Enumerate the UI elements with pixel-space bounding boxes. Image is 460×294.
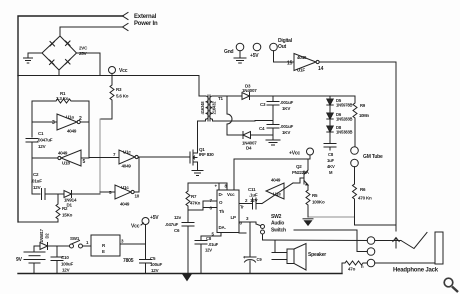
svg-text:1N5383B: 1N5383B <box>336 130 352 135</box>
svg-text:416348: 416348 <box>200 101 205 115</box>
wire ground rail <box>18 273 342 275</box>
svg-text:C2: C2 <box>33 172 39 177</box>
svg-text:Speaker: Speaker <box>308 252 326 258</box>
capacitor C3 <box>272 96 274 101</box>
wire R6 to U1F output line <box>354 217 356 225</box>
svg-text:.01uF: .01uF <box>208 242 219 247</box>
op-amp U1d (4049 buffer) <box>115 185 134 199</box>
wire battery to D2 <box>34 245 40 247</box>
svg-text:Th: Th <box>219 209 225 214</box>
jack tip arrow <box>393 238 399 249</box>
switch SW2 <box>256 224 265 240</box>
svg-text:LP: LP <box>231 215 237 220</box>
svg-text:U1e: U1e <box>273 192 281 197</box>
wire jack tip lead <box>375 240 401 242</box>
svg-text:100Ko: 100Ko <box>312 200 325 205</box>
diode D3 <box>242 93 250 100</box>
wire +5V pad down <box>145 225 147 260</box>
svg-text:U1c: U1c <box>123 150 131 155</box>
connector arrow top <box>123 13 129 20</box>
node +5V internal pad <box>142 218 149 225</box>
svg-text:C10: C10 <box>61 255 69 260</box>
svg-text:C1: C1 <box>38 131 44 136</box>
node Vcc pad <box>109 67 116 74</box>
wire U1e to Q2 base <box>293 178 304 183</box>
diode D1 <box>64 191 72 198</box>
svg-text:12V: 12V <box>250 198 258 203</box>
value label bridge output <box>79 46 88 57</box>
wire from bridge top to external power <box>60 26 123 28</box>
svg-text:T1: T1 <box>218 96 224 101</box>
svg-text:.1uF: .1uF <box>249 193 258 198</box>
svg-text:Tr: Tr <box>240 205 244 210</box>
wire D2 to SW1 <box>48 245 70 247</box>
svg-text:4049: 4049 <box>122 164 132 169</box>
wire top border / external power top lead <box>18 16 123 76</box>
svg-text:4049: 4049 <box>120 202 130 207</box>
wire left border down <box>17 76 19 223</box>
wire rail to transformer primary <box>199 76 203 97</box>
node headphone jack pad 2 <box>367 248 375 256</box>
op-amp U1a (4049 inverter) <box>57 114 80 130</box>
svg-text:14: 14 <box>318 66 324 72</box>
wire U1a input <box>32 121 57 123</box>
capacitor C2 <box>32 193 40 195</box>
svg-text:GM Tube: GM Tube <box>363 154 383 160</box>
capacitor C9 <box>249 222 251 257</box>
wire feedback vertical <box>99 119 101 194</box>
ground (bridge AC input) <box>24 53 33 63</box>
wire Q2 collector to +Vcc feed <box>307 159 309 170</box>
zener diode D8 <box>329 119 331 126</box>
node GM tube pad bottom <box>351 159 359 167</box>
wire U1b input <box>81 157 89 159</box>
wire secondary node down with hop <box>227 96 232 135</box>
wire oscillator right vertical <box>88 101 90 158</box>
svg-text:Vcc: Vcc <box>131 224 140 230</box>
battery B1 9V <box>24 246 45 274</box>
svg-text:Vcc: Vcc <box>119 68 128 74</box>
svg-text:C9: C9 <box>257 257 263 262</box>
svg-text:SW2: SW2 <box>271 214 282 220</box>
svg-text:+5V: +5V <box>150 215 159 221</box>
svg-text:.0047uF: .0047uF <box>37 138 53 143</box>
resistor R2 <box>56 194 60 222</box>
svg-text:C11: C11 <box>248 187 256 192</box>
wire bridge output right <box>77 52 101 54</box>
svg-text:2: 2 <box>79 116 82 122</box>
transistor Q1 (MOSFET) <box>190 150 198 165</box>
bridge rectifier BR1 <box>42 36 77 70</box>
svg-text:C4: C4 <box>259 126 265 131</box>
op-amp U1b (4049 inverter) <box>58 150 81 166</box>
svg-text:D4: D4 <box>246 146 252 151</box>
svg-text:4049: 4049 <box>297 55 307 60</box>
wire C2 to D1 <box>45 193 64 195</box>
svg-text:U1b: U1b <box>62 161 70 166</box>
svg-text:216432: 216432 <box>212 101 217 115</box>
wire U1d output join <box>134 157 139 192</box>
wire secondary top to D3 <box>214 95 242 97</box>
svg-text:R9: R9 <box>360 103 366 108</box>
ground (R5 bottom) <box>303 219 313 226</box>
svg-text:47o: 47o <box>348 267 356 272</box>
wire speaker top terminal <box>274 241 276 253</box>
switch SW1 <box>70 241 83 249</box>
svg-text:12V: 12V <box>38 144 46 149</box>
svg-text:4049: 4049 <box>58 151 68 156</box>
wire U1F output right <box>319 61 396 63</box>
svg-text:15Ko: 15Ko <box>62 213 73 218</box>
svg-text:.01uF: .01uF <box>31 179 42 184</box>
node headphone jack pad 3 <box>367 259 375 267</box>
resistor R5 <box>306 190 310 217</box>
resistor R1 <box>32 99 89 103</box>
svg-text:3: 3 <box>52 120 55 126</box>
svg-text:SW1: SW1 <box>70 236 80 241</box>
svg-text:Power In: Power In <box>134 21 158 27</box>
node GM tube pad top <box>351 147 359 155</box>
wire R7 to 555 pins 7,6 <box>188 201 217 210</box>
capacitor C5 <box>140 260 152 264</box>
svg-text:C3: C3 <box>260 102 266 107</box>
svg-text:12v: 12v <box>174 215 182 220</box>
resistor R6 <box>353 184 357 217</box>
svg-text:.047uF: .047uF <box>165 222 179 227</box>
svg-text:U1F: U1F <box>297 68 305 73</box>
capacitor C8 (bypass) <box>201 233 221 241</box>
svg-text:100uF: 100uF <box>150 262 162 267</box>
svg-text:D2: D2 <box>45 233 50 239</box>
resistor R3 <box>110 76 114 120</box>
svg-text:+Vcc: +Vcc <box>289 151 300 157</box>
node External Power In label <box>134 14 158 27</box>
node +Vcc pad <box>307 148 314 155</box>
op-amp U1F (4049 inverter) <box>294 54 319 71</box>
node headphone jack pad 1 <box>367 237 375 245</box>
svg-text:U1c: U1c <box>121 185 129 190</box>
wire D4 to C4 node <box>251 134 274 136</box>
svg-text:R6: R6 <box>360 187 366 192</box>
svg-text:4KV: 4KV <box>327 164 335 169</box>
svg-text:C8: C8 <box>206 236 212 241</box>
op-amp U1e (4049 inverter) <box>266 183 284 199</box>
wire right vertical (digital/headphone feed) <box>395 62 397 225</box>
svg-text:R2: R2 <box>62 206 68 211</box>
svg-text:C8: C8 <box>328 152 334 157</box>
svg-text:10: 10 <box>135 194 140 199</box>
svg-text:.001uF: .001uF <box>280 100 294 105</box>
zener diode D5 <box>329 96 331 99</box>
wire supply rail (box bottom edge) <box>18 75 199 77</box>
svg-text:12V: 12V <box>33 185 41 190</box>
resistor R7 <box>186 183 190 210</box>
wire R3 bottom to feedback line <box>100 118 112 120</box>
wire 555 supply stubs <box>218 183 220 190</box>
wire Q2 emitter to R5 <box>307 185 309 190</box>
node Gnd pad <box>236 43 244 51</box>
svg-text:Q2: Q2 <box>296 164 302 169</box>
zener diode D6 <box>329 105 331 113</box>
wire +Vcc feed line <box>234 155 310 190</box>
wire 555 bottom stub <box>239 232 246 234</box>
svg-text:C6: C6 <box>174 228 180 233</box>
svg-text:5: 5 <box>83 159 86 165</box>
magnifier icon <box>444 278 458 292</box>
wire osc to U1c input <box>89 157 119 159</box>
svg-text:12V: 12V <box>205 248 212 253</box>
resistor R8 <box>342 261 367 265</box>
svg-text:DA.: DA. <box>219 225 226 230</box>
wire U1b to C2 row <box>31 158 33 194</box>
capacitor C10 <box>56 246 58 257</box>
wire jack sleeve lead <box>375 262 435 264</box>
wire 555 pin3 output <box>239 222 256 224</box>
wire GM pad to R6 <box>354 167 356 184</box>
capacitor C6 <box>187 210 189 223</box>
wire Q1 source down <box>197 162 199 170</box>
svg-text:.001uF: .001uF <box>280 124 294 129</box>
svg-text:R5: R5 <box>312 193 318 198</box>
svg-text:Gnd: Gnd <box>224 49 234 55</box>
diode D4 <box>243 132 251 139</box>
svg-text:+5V: +5V <box>250 53 259 59</box>
svg-text:7805: 7805 <box>123 258 134 264</box>
svg-text:4049: 4049 <box>67 129 77 134</box>
svg-text:PN2222A: PN2222A <box>292 170 309 175</box>
wire R2 bottom to left border <box>18 221 58 223</box>
wire audio line lower (speaker to jack) <box>263 239 368 242</box>
svg-text:5.6 Ko: 5.6 Ko <box>116 94 129 99</box>
wire Q1 drain up to transformer <box>197 121 199 153</box>
svg-text:R7: R7 <box>191 194 197 199</box>
node +5V pad <box>253 43 261 51</box>
svg-text:10Mn: 10Mn <box>359 113 370 118</box>
transistor Q2 <box>304 170 308 185</box>
ground (rail marker) <box>183 275 191 281</box>
voltage regulator U3 7805 <box>91 235 120 256</box>
wire R8 to ground rail <box>341 263 343 274</box>
jack switch contact <box>401 233 427 249</box>
svg-text:Switch: Switch <box>271 228 286 234</box>
wire secondary node to D4 <box>227 134 242 136</box>
wire audio line upper <box>294 229 357 231</box>
svg-text:External: External <box>134 14 157 20</box>
svg-text:2VC: 2VC <box>79 46 88 51</box>
wire SW1 to regulator <box>83 245 92 247</box>
wire R5/R6 bottom link <box>308 216 355 218</box>
wire digital out to U1F <box>274 51 295 62</box>
svg-text:D-: D- <box>219 192 224 197</box>
svg-text:470 Kn: 470 Kn <box>358 196 372 201</box>
wire U1a output <box>80 121 89 123</box>
headphone jack body <box>435 232 443 264</box>
node Digital Out pad <box>270 43 278 51</box>
svg-text:4049: 4049 <box>271 178 281 183</box>
svg-text:9V: 9V <box>16 257 23 263</box>
capacitor C4 <box>267 125 279 129</box>
diode D2 <box>40 243 48 250</box>
wire D1 to feedback line <box>72 193 101 195</box>
wire transformer primary bottom to Q1 <box>198 120 203 122</box>
capacitor C11 <box>253 198 257 209</box>
555 timer U2 <box>217 190 239 233</box>
svg-text:E: E <box>102 249 105 254</box>
wire U1b output to left <box>32 157 58 159</box>
wire U1c output to Q1 gate <box>138 156 190 158</box>
svg-text:1uF: 1uF <box>327 158 334 163</box>
svg-text:IRF 830: IRF 830 <box>199 152 214 157</box>
svg-text:Vcc: Vcc <box>227 192 235 197</box>
wire HV rail <box>250 95 356 97</box>
transformer T1 <box>203 95 215 121</box>
wire U1d input <box>100 191 115 193</box>
svg-text:12V: 12V <box>62 268 70 273</box>
wire bridge output down <box>99 53 101 76</box>
svg-text:1KV: 1KV <box>282 130 290 135</box>
wire 555 pin2 to C11 <box>239 203 252 205</box>
wire bridge bottom corner down <box>58 70 60 76</box>
svg-text:12V: 12V <box>151 268 159 273</box>
capacitor C8 (HV) <box>329 132 331 144</box>
connector arrow bottom <box>123 24 129 31</box>
oscillator left vertical wire <box>31 101 33 137</box>
svg-text:100uF: 100uF <box>61 262 73 267</box>
svg-text:D1: D1 <box>67 203 73 208</box>
svg-text:Out: Out <box>278 44 287 50</box>
svg-text:3.3 Ko: 3.3 Ko <box>56 96 69 101</box>
speaker SPK1 <box>272 244 306 271</box>
svg-text:U1a: U1a <box>66 115 74 120</box>
wire regulator output <box>120 243 146 245</box>
svg-text:1KV: 1KV <box>282 106 290 111</box>
ground (Gnd pad) <box>239 51 241 57</box>
svg-text:1N5978B: 1N5978B <box>336 103 352 108</box>
capacitor C1 <box>26 139 38 143</box>
svg-text:1N5283B: 1N5283B <box>336 117 352 122</box>
svg-text:47Kn: 47Kn <box>190 201 201 206</box>
ground (C4 bottom) <box>266 140 280 145</box>
op-amp U1c (4049 buffer) <box>119 150 138 164</box>
svg-text:Audio: Audio <box>271 221 284 227</box>
svg-text:1N4007: 1N4007 <box>242 88 257 93</box>
svg-text:1N5817: 1N5817 <box>39 228 44 242</box>
wire bridge top corner up <box>59 27 61 36</box>
svg-text:25V: 25V <box>79 51 87 56</box>
svg-text:C5: C5 <box>150 256 156 261</box>
ground (Q1 source) <box>192 171 203 176</box>
svg-text:15: 15 <box>287 61 293 67</box>
resistor R9 <box>353 96 357 147</box>
wire bridge left to ground <box>28 52 42 54</box>
svg-text:Headphone Jack: Headphone Jack <box>393 268 439 274</box>
wire secondary bottom to C3/C4 midpoint <box>214 120 255 122</box>
svg-text:R3: R3 <box>116 87 122 92</box>
